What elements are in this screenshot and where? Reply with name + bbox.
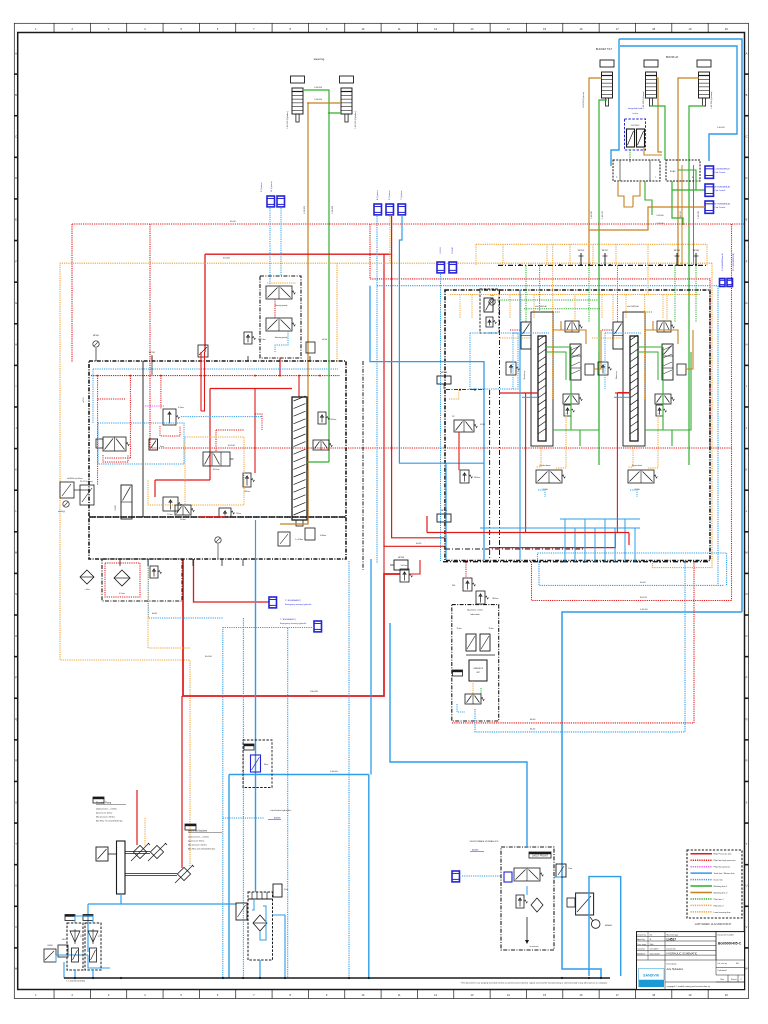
svg-text:1-63-100 (Cyl boom): 1-63-100 (Cyl boom) [711, 91, 713, 109]
wire brown knob [644, 148, 662, 155]
black dash gauge bus [446, 389, 484, 391]
wire blue filter A003 [92, 970, 94, 978]
wire green boom [638, 346, 662, 348]
svg-text:A006M: A006M [274, 817, 281, 820]
wire blue dash 618 [148, 559, 222, 618]
check 3bar rm [489, 299, 495, 305]
svg-text:Displacement: -- cm3/rev: Displacement: -- cm3/rev [96, 807, 117, 810]
svg-text:B3 A3: B3 A3 [670, 170, 676, 173]
svg-text:G: G [15, 301, 17, 305]
svg-text:40-100: 40-100 [228, 445, 236, 447]
wire green inner block [678, 170, 696, 190]
pilot stub WP504 [676, 253, 678, 265]
svg-text:N: N [746, 592, 748, 596]
svg-text:60-41: 60-41 [152, 613, 158, 615]
label steering pump [93, 797, 104, 803]
wire red 532 [427, 532, 629, 534]
svg-text:mk: mk [650, 935, 653, 937]
svg-text:Appr. by: Appr. by [637, 938, 644, 941]
lubrication box [452, 605, 499, 721]
svg-text:steering: steering [314, 57, 325, 61]
svg-text:0 bar: 0 bar [160, 446, 164, 448]
svg-text:T 1. 200 000 (@ 6045): T 1. 200 000 (@ 6045) [66, 981, 85, 983]
valve top small [198, 345, 208, 357]
svg-text:D: D [746, 176, 748, 180]
connector cab control 1 [705, 166, 714, 178]
svg-text:1-40-40: 1-40-40 [717, 127, 725, 129]
wire red dot lub out [452, 722, 694, 724]
wire blue dot lm top row [93, 368, 338, 370]
wire brown to connC [589, 207, 705, 230]
svg-text:Integrated knob: Integrated knob [628, 107, 643, 110]
svg-text:S: S [15, 800, 17, 804]
wire blue drain 243 [242, 618, 244, 978]
wire orange loop lm [148, 437, 244, 505]
svg-text:1-63-100 (Cyl boom): 1-63-100 (Cyl boom) [643, 91, 645, 109]
svg-text:Displacement: -- cm3/rev: Displacement: -- cm3/rev [188, 835, 209, 838]
wire blue pump suction [121, 894, 236, 904]
svg-text:B: B [746, 93, 748, 97]
svg-text:Automatic central: Automatic central [467, 609, 483, 612]
connector mid pair 258 [437, 262, 445, 273]
wire blue rm bus [519, 290, 521, 560]
wire blue dot lm left v [92, 369, 94, 423]
wire green lub [480, 688, 482, 694]
wire green dot drop w4 [695, 265, 697, 322]
cylinder steering right [340, 76, 354, 83]
svg-text:Q: Q [15, 717, 17, 721]
svg-text:1 u: 1 u [99, 935, 101, 937]
svg-text:V: V [746, 925, 748, 929]
wire red relief [384, 573, 400, 575]
svg-text:Created: Created [637, 948, 644, 951]
wire red mp508 v [383, 545, 385, 574]
svg-text:WP504: WP504 [674, 250, 681, 252]
tank box [248, 892, 273, 960]
svg-text:3.5 bar: 3.5 bar [167, 514, 173, 516]
svg-text:d-b0 100/60-d0: d-b0 100/60-d0 [535, 306, 547, 308]
valve top 2.5bar [244, 332, 252, 344]
svg-text:to reservoir: to reservoir [530, 945, 539, 948]
wire brown boom [645, 321, 653, 330]
svg-text:O: O [15, 634, 17, 638]
svg-text:MGA-B: MGA-B [605, 924, 612, 927]
pilot stub WP517 [604, 253, 606, 265]
compensator lm [149, 439, 158, 450]
gauge MP509 [437, 514, 451, 522]
main valve lm [203, 452, 230, 466]
wire blue tank top inner [620, 46, 737, 161]
svg-text:E: E [746, 218, 748, 222]
svg-text:3-60bar: 3-60bar [320, 535, 327, 537]
svg-text:1 u: 1 u [81, 935, 83, 937]
relief sub [150, 566, 158, 578]
svg-text:BUCKET TILT: BUCKET TILT [596, 47, 613, 51]
svg-text:1 bar: 1 bar [568, 867, 573, 870]
svg-text:Boom and buckets: Boom and buckets [188, 830, 208, 833]
title block [637, 932, 745, 990]
green dot row a [495, 299, 598, 301]
svg-text:lubrication: lubrication [470, 613, 479, 616]
check 2bar [273, 884, 282, 897]
svg-text:Pilot line 2: Pilot line 2 [714, 904, 725, 907]
svg-text:Description: Description [667, 962, 677, 965]
svg-text:Working line 2: Working line 2 [714, 891, 729, 894]
wire blue tank return [255, 559, 257, 892]
svg-text:2 bar: 2 bar [284, 889, 288, 891]
svg-text:B / B2/B00B/B-B): B / B2/B00B/B-B) [715, 204, 731, 206]
svg-text:45 l/min: 45 l/min [213, 469, 220, 471]
pump boom [177, 867, 190, 880]
pump drive shaft [117, 841, 126, 894]
svg-text:Tank line / Return line: Tank line / Return line [714, 872, 736, 875]
svg-text:BG00000405-C: BG00000405-C [718, 942, 742, 946]
svg-text:1-40-200: 1-40-200 [314, 99, 323, 101]
wire green lm end [307, 461, 329, 463]
svg-text:N: N [15, 592, 17, 596]
svg-text:250 bar: 250 bar [244, 491, 250, 493]
wire blue tank down [259, 960, 261, 978]
svg-text:1-40-200: 1-40-200 [332, 205, 334, 214]
svg-text:FRONT BRAKE HYDRAULICS: FRONT BRAKE HYDRAULICS [470, 840, 499, 843]
motor box [96, 847, 108, 861]
wire orange bucket [520, 295, 522, 323]
steering priority box [260, 276, 301, 358]
wire orange LS drop x570 [569, 244, 571, 265]
svg-text:Emergency steering hydraulic: Emergency steering hydraulic [280, 622, 306, 625]
wire green steering [303, 90, 341, 113]
svg-text:140-2: 140-2 [62, 939, 67, 941]
svg-text:B: B [15, 93, 17, 97]
orange dot row mid [500, 337, 530, 339]
cylinder bucket tilt [600, 60, 614, 67]
wire blue dash frontbrake label [223, 817, 264, 819]
SANDVIK logo [639, 969, 665, 988]
svg-text:Document number: Document number [718, 934, 735, 937]
wire blue dash emergency T [223, 628, 314, 979]
svg-text:1-62-40: 1-62-40 [640, 609, 648, 611]
pilot block right [666, 160, 700, 181]
wire orange LS drop x648 [647, 244, 649, 265]
svg-text:A: A [746, 51, 748, 55]
svg-text:High Pressure line: High Pressure line [714, 853, 733, 856]
wire orange dash right margin [652, 263, 712, 567]
svg-text:D: D [15, 176, 17, 180]
svg-text:P / BG00B0A-B7): P / BG00B0A-B7) [285, 599, 301, 602]
connector mid trio [374, 204, 382, 215]
spool assembly boom [623, 312, 645, 446]
wire orange dashed left margin [60, 263, 712, 866]
left manifold pilot rail [91, 375, 340, 377]
svg-text:MP510: MP510 [441, 372, 447, 374]
svg-text:40-200: 40-200 [223, 257, 231, 259]
band components [175, 505, 191, 515]
svg-text:1-40-200: 1-40-200 [314, 87, 323, 89]
wire orange dash 190 [148, 561, 190, 648]
connector emergency P [269, 597, 277, 608]
wire blue dash 554 [538, 553, 727, 585]
wire blue filter A002 [74, 970, 76, 978]
svg-text:G1000: G1000 [115, 505, 117, 510]
svg-text:0.5 bar: 0.5 bar [119, 592, 125, 595]
right manifold bottom bus [443, 561, 710, 563]
svg-text:Rev: Rev [721, 979, 725, 981]
wire red boom feed [616, 393, 618, 534]
svg-text:Document: Document [667, 948, 677, 951]
wire blue tank top outer [619, 39, 742, 612]
wire red dotted 279 [370, 224, 710, 448]
svg-text:1-63-210: 1-63-210 [602, 211, 604, 219]
tank bus [64, 977, 610, 979]
solenoid valve lm [103, 437, 126, 451]
svg-text:4p pressure: 30 bar: 4p pressure: 30 bar [188, 839, 205, 842]
right manifold inner sub [480, 289, 499, 333]
wire blue front inner [526, 886, 528, 895]
wire brown boom left [656, 78, 662, 152]
relief 100bar [476, 591, 485, 604]
wire blue dashed B drop [376, 216, 378, 563]
wire blue front brake feed [390, 623, 527, 847]
svg-text:mPrESSu pl u-40um: mPrESSu pl u-40um [67, 477, 83, 480]
wire orange lub [472, 681, 474, 694]
svg-text:Pilot line 1: Pilot line 1 [714, 898, 725, 901]
svg-text:3 bar: 3 bar [490, 295, 494, 297]
wire blue n-shape [589, 877, 621, 976]
filter A002 [65, 915, 75, 921]
svg-text:B (Cyclone): B (Cyclone) [377, 190, 379, 200]
wire red branch b [392, 216, 445, 538]
svg-text:Boom down: Boom down [632, 465, 642, 467]
wire blue dash front [462, 875, 501, 877]
wire brown green mid [546, 346, 571, 348]
gauge MP401 [93, 341, 99, 347]
svg-text:Q: Q [745, 717, 747, 721]
left manifold bottom stubs [119, 559, 121, 566]
svg-text:1-63-100 (Cylinder): 1-63-100 (Cylinder) [582, 91, 585, 108]
stub valve below manifold [278, 532, 290, 546]
connector cab control 2 [705, 184, 714, 196]
svg-text:wPr01(p): wPr01(p) [58, 510, 65, 513]
svg-text:1-40-200: 1-40-200 [304, 205, 306, 214]
wire orange LS drop x547 [546, 244, 548, 265]
left manifold top stubs [151, 356, 153, 361]
wire red pair lm [200, 352, 202, 411]
svg-text:14.12.2020: 14.12.2020 [650, 953, 661, 955]
wire red lm main [210, 388, 292, 390]
svg-text:Max Flow: On L/min@2k70 rpm: Max Flow: On L/min@2k70 rpm [96, 819, 123, 822]
svg-text:S2056: S2056 [47, 945, 52, 947]
svg-text:WP517: WP517 [602, 250, 609, 252]
svg-text:40-30: 40-30 [416, 543, 422, 545]
cylinder boom right [697, 60, 711, 67]
wire red band [199, 516, 225, 518]
svg-text:1-63-200: 1-63-200 [591, 211, 593, 219]
wire red rm rail [500, 392, 539, 394]
black dash outer boundary [362, 361, 364, 570]
red dot pilot stub bucket [510, 329, 521, 331]
svg-text:E1 B (LH8000xxx-B): E1 B (LH8000xxx-B) [722, 253, 724, 271]
connector pair right frame [720, 279, 726, 287]
svg-text:SHu: SHu [650, 944, 654, 946]
wire blue dash loop bucket [513, 332, 549, 334]
svg-text:C (B2/B00B/B-B): C (B2/B00B/B-B) [715, 169, 730, 171]
shuttle P1P2 [80, 485, 94, 505]
wire blue dash 585 [539, 562, 724, 586]
svg-text:Rise: Rise [264, 764, 269, 766]
wire red to pump1 [136, 790, 138, 845]
svg-text:Drain line: Drain line [714, 879, 724, 882]
wire magenta lm [143, 405, 165, 407]
connector steering pilot pair [267, 196, 275, 207]
wire green cross [637, 346, 663, 348]
svg-text:LAST SAVED: 14.12.2020 8:36:2: LAST SAVED: 14.12.2020 8:36:27 [695, 923, 732, 926]
wire orange LS drop x503 [502, 244, 504, 265]
svg-text:Steering Pump: Steering Pump [96, 802, 112, 805]
wire blue dash lub [457, 704, 465, 712]
svg-text:Max Flow: 220 L/min@2k70 rpm: Max Flow: 220 L/min@2k70 rpm [188, 847, 216, 850]
small comp suction b [58, 945, 68, 957]
svg-text:100 bar: 100 bar [492, 597, 499, 600]
svg-text:K: K [15, 467, 17, 471]
wire green dot drop w3 [674, 265, 676, 322]
wire green rm rows [546, 352, 566, 380]
wire blue suction drop [87, 904, 89, 952]
outside gauge [63, 501, 69, 507]
svg-text:LS (Cyclone): LS (Cyclone) [271, 181, 273, 192]
stub comp 310 [306, 342, 315, 353]
cylinder boom left [644, 60, 658, 67]
svg-text:64-40: 64-40 [530, 719, 536, 721]
motor MGA-B [576, 893, 594, 915]
svg-text:H: H [15, 343, 17, 347]
small comp suction a [44, 949, 56, 962]
svg-text:70 bar: 70 bar [456, 628, 461, 630]
svg-text:250 bar: 250 bar [330, 418, 337, 421]
svg-text:1-40-100 (Cylinder): 1-40-100 (Cylinder) [287, 111, 289, 129]
svg-text:Boom up: Boom up [616, 371, 618, 379]
relief 200bar rm [460, 470, 469, 483]
wire orange pump stub [144, 818, 146, 846]
wire blue dashed T line [377, 286, 718, 586]
wire red dashed left stub [71, 224, 73, 362]
svg-text:Calculated: Calculated [718, 969, 727, 972]
wire blue rise branch [229, 774, 369, 776]
wire blue filter feed [75, 916, 93, 923]
wire orange LS drop x593 [592, 244, 594, 265]
svg-text:A / B2/B00B/B-B): A / B2/B00B/B-B) [715, 186, 731, 189]
wire orange LS drop x616 [615, 244, 617, 265]
wire red dot 600 [532, 562, 732, 601]
wire blue solid 612 [562, 612, 742, 978]
svg-text:Cab Control: Cab Control [715, 171, 726, 174]
svg-text:Modified: Modified [637, 953, 645, 955]
wire orange LS drop x476 [475, 244, 477, 265]
svg-text:8.0 bar: 8.0 bar [180, 519, 186, 521]
wire brown bucket cyl [589, 78, 602, 265]
svg-text:K: K [746, 467, 748, 471]
wire blue dot row lm [181, 416, 262, 418]
wire red pump supply [183, 559, 400, 696]
blue tank gallery comb [560, 518, 640, 520]
shuttle sym [80, 570, 94, 584]
svg-text:0.3 bar: 0.3 bar [178, 406, 184, 409]
wire red dashed lower [150, 447, 732, 449]
svg-text:Lat. rev. by: Lat. rev. by [718, 962, 727, 965]
svg-text:64-120: 64-120 [640, 597, 648, 599]
svg-text:5-40 bar: 5-40 bar [401, 565, 408, 567]
svg-text:100-200: 100-200 [310, 691, 319, 693]
svg-text:10 bar: 10 bar [236, 513, 241, 515]
svg-text:Pilot line high pressure: Pilot line high pressure [714, 859, 737, 862]
wire orange LS deep b [647, 265, 649, 295]
orange dot verts rm [459, 295, 461, 319]
right manifold box [445, 290, 710, 561]
svg-text:40-00: 40-00 [230, 221, 236, 223]
svg-text:Bucket up: Bucket up [523, 371, 526, 379]
svg-text:S: S [746, 800, 748, 804]
wire blue dot loop lm [98, 423, 184, 464]
svg-text:V: V [15, 925, 17, 929]
wire red dashed upper loop [72, 223, 744, 225]
wire red rm bottom [465, 560, 467, 578]
wire red rm left v [458, 432, 460, 470]
relief 10bar [219, 508, 231, 517]
svg-text:A: A [15, 51, 17, 55]
wire green dot drop w2 [525, 265, 527, 322]
svg-text:60-100: 60-100 [205, 656, 213, 658]
svg-text:Steering priority: Steering priority [275, 336, 288, 339]
second partition dash [489, 390, 491, 560]
svg-text:P 2.5 bar: P 2.5 bar [258, 338, 266, 341]
svg-text:200 bar: 200 bar [474, 476, 481, 479]
connector front brake [452, 871, 460, 882]
wire green dot drop w5 [539, 265, 541, 312]
svg-text:Axle Hydraulics: Axle Hydraulics [667, 968, 684, 971]
svg-text:Cab Control: Cab Control [715, 206, 726, 209]
relief 5-40bar [400, 569, 409, 582]
wire red dot lm v4 [255, 414, 262, 430]
wire orange LS deep a [552, 244, 554, 399]
svg-text:P (Cyclone): P (Cyclone) [261, 182, 263, 192]
svg-text:P2 1 (BG2000000-B): P2 1 (BG2000000-B) [733, 253, 735, 271]
svg-text:P (Cyclone): P (Cyclone) [389, 190, 391, 200]
orange L gauge [449, 390, 459, 399]
svg-text:SANDVIK: SANDVIK [643, 974, 660, 978]
connector emergency T [314, 621, 322, 632]
svg-text:300: 300 [452, 585, 455, 587]
wire red dot lm h1 [98, 398, 125, 400]
wire blue filters top [88, 955, 110, 968]
wire red dot lm h3 [216, 429, 244, 431]
svg-text:MP509: MP509 [441, 510, 447, 512]
wire blue suction link [56, 954, 88, 956]
svg-text:64-40: 64-40 [640, 582, 646, 584]
valve G1000 [121, 485, 132, 519]
rise pilot box [243, 740, 272, 788]
wire red 547 [490, 533, 615, 548]
relief 250bar [243, 473, 251, 487]
svg-text:Drawn by: Drawn by [637, 935, 645, 937]
wire red dot lm v2 [129, 376, 131, 437]
wire red priority drop [279, 358, 281, 376]
svg-text:O: O [745, 634, 747, 638]
wire orange LS deep c [644, 295, 646, 400]
svg-text:H: H [746, 343, 748, 347]
svg-text:LH517 FRONT: LH517 FRONT [532, 854, 548, 857]
svg-text:"This document is our property: "This document is our property and shall… [461, 981, 608, 984]
gauge MP510 [437, 376, 451, 384]
pump aux [150, 845, 163, 858]
